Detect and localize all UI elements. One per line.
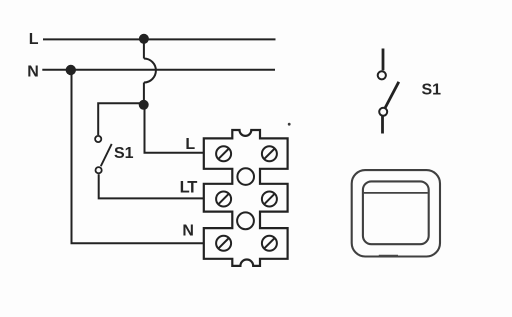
terminal block outline [204, 130, 288, 266]
wire from L junction down to hop [143, 39, 145, 59]
screw terminal L left [216, 146, 231, 161]
junction on N line [66, 65, 76, 75]
switch S1 symbol bottom contact [379, 108, 387, 116]
wire from hop to lower junction [143, 83, 145, 105]
screw terminal LT right [262, 192, 277, 207]
wire hop over N line [144, 59, 156, 83]
svg-text:LT: LT [180, 179, 198, 197]
wire N line [42, 69, 275, 71]
switch S1 blade [101, 144, 112, 166]
switch S1 symbol bottom lead [381, 116, 384, 133]
svg-text:L: L [185, 136, 195, 153]
wall switch rocker seam [364, 192, 428, 194]
wire N junction down and right to N terminal [72, 70, 205, 243]
wire switch to LT terminal [99, 174, 205, 198]
screw terminal LT left [216, 192, 231, 207]
switch S1 symbol blade [384, 82, 399, 110]
wall switch bottom shadow [379, 255, 398, 257]
junction node below hop [139, 100, 149, 110]
terminal block hole between LT and N [237, 212, 254, 229]
wire L line [43, 38, 276, 40]
switch S1 bottom contact [96, 167, 102, 173]
svg-text:N: N [27, 63, 39, 80]
wire junction to switch S1 (left then down) [98, 103, 144, 135]
screw terminal N right [262, 236, 277, 251]
switch S1 symbol top contact [378, 71, 386, 79]
terminal block hole between L and LT [237, 168, 254, 185]
screw terminal N left [216, 236, 231, 251]
svg-text:N: N [182, 223, 194, 240]
svg-text:S1: S1 [114, 145, 134, 162]
wall switch outer frame [352, 170, 440, 256]
screw terminal L right [262, 146, 277, 161]
switch S1 top contact [95, 136, 101, 142]
switch S1 symbol top lead [382, 49, 385, 71]
wire junction down to L terminal [145, 105, 205, 153]
wall switch rocker [363, 181, 429, 244]
svg-text:L: L [29, 31, 39, 48]
junction on L line [139, 34, 149, 44]
stray mark above terminal block [288, 123, 291, 126]
svg-text:S1: S1 [422, 81, 442, 98]
